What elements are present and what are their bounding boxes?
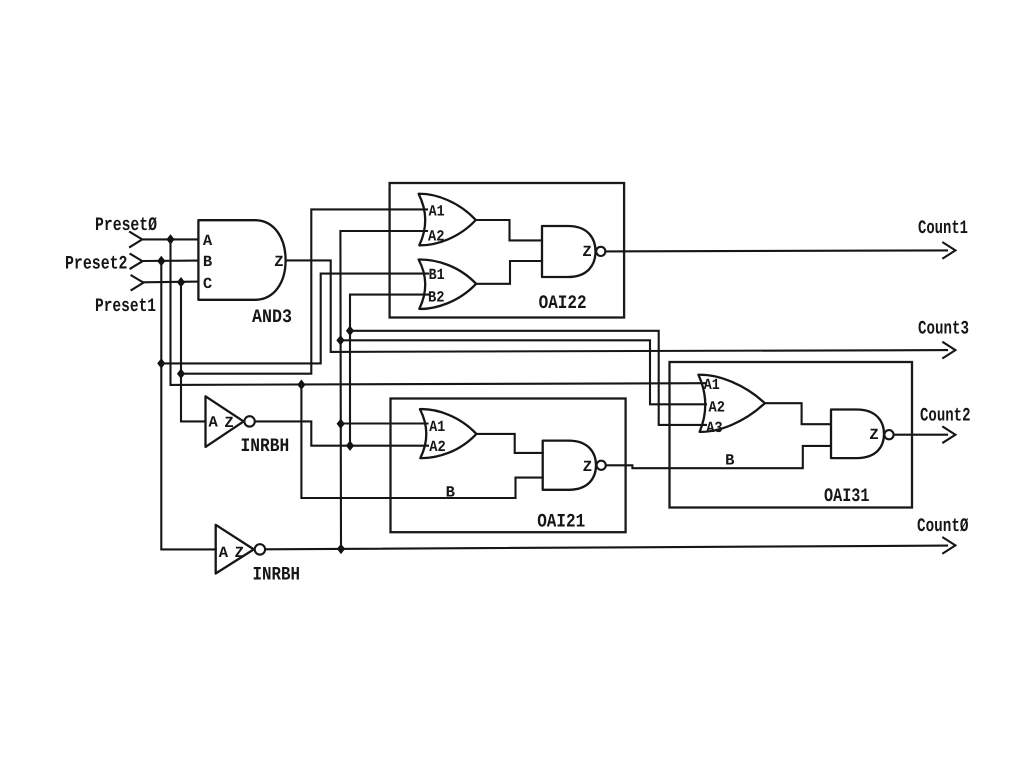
bubble OAI31.Z bbox=[884, 430, 893, 439]
label AND3 bbox=[252, 306, 292, 328]
wire Preset0 vertical bus bbox=[169, 239, 171, 385]
pin A of INRBH2 bbox=[219, 544, 229, 562]
label INRBH1 bbox=[241, 435, 290, 457]
nand-gate OAI22 bbox=[542, 226, 596, 277]
pin B of OAI21 bbox=[446, 483, 455, 501]
pin A2 of OAI31 bbox=[709, 398, 726, 416]
svg-text:Z: Z bbox=[869, 426, 878, 444]
pin Z of INRBH2 bbox=[235, 544, 244, 562]
pin Z of OAI22 bbox=[582, 243, 591, 261]
pin B of OAI31 bbox=[725, 451, 734, 469]
wire OAI22.Z to Count1 bbox=[605, 250, 947, 251]
label Preset2 bbox=[65, 252, 128, 274]
label Preset1 bbox=[95, 295, 156, 317]
wire OAI31.Z to Count2 bbox=[894, 434, 947, 436]
svg-text:CountØ: CountØ bbox=[917, 515, 969, 537]
junction Preset1 branch to OAI22.A1 bbox=[177, 369, 185, 379]
input pin Preset2 bbox=[131, 254, 143, 269]
wire Preset2 vertical bus to INRBH2 bbox=[161, 261, 215, 549]
junction Count0 net branch to OAI21.A1 bbox=[337, 419, 345, 429]
pin A1 of OAI21 bbox=[429, 418, 445, 436]
svg-text:A1: A1 bbox=[704, 376, 720, 394]
svg-text:A: A bbox=[209, 413, 219, 431]
pin A3 of OAI31 bbox=[706, 419, 723, 437]
label Count1 bbox=[918, 217, 968, 239]
svg-text:Z: Z bbox=[224, 414, 233, 432]
or-gate OAI22 B bbox=[419, 259, 477, 308]
label OAI22 bbox=[539, 292, 587, 314]
wire INRBH1 net branch to OAI31.A3 bbox=[350, 331, 706, 425]
junction INRBH1 net branch to OAI31.A3 bbox=[346, 326, 354, 336]
junction Preset1 at AND3.C bbox=[177, 277, 185, 287]
input pin Preset0 bbox=[130, 232, 142, 247]
svg-text:A2: A2 bbox=[709, 398, 726, 416]
junction Preset2 branch to OAI22.B1 bbox=[157, 358, 165, 368]
wire Preset1 vertical bus to INRBH1.A bbox=[181, 282, 206, 421]
svg-text:Count3: Count3 bbox=[918, 317, 969, 339]
svg-text:Count2: Count2 bbox=[920, 405, 971, 427]
wire OAI21 or output to nand bbox=[476, 434, 542, 453]
wire INRBH1 net riser to OAI22.B2 bbox=[350, 295, 428, 446]
junction Count0 net branch to OAI31.A2 bbox=[336, 335, 344, 345]
junction INRBH1 net to OAI22.B2 riser bbox=[346, 441, 354, 451]
svg-text:A: A bbox=[203, 232, 213, 250]
svg-text:B2: B2 bbox=[428, 288, 445, 306]
pin B2 of OAI22 bbox=[428, 288, 445, 306]
wire OAI31 or output to nand bbox=[765, 403, 831, 424]
bubble INRBH1.Z bbox=[244, 416, 254, 426]
svg-text:Preset2: Preset2 bbox=[65, 252, 128, 274]
svg-text:A1: A1 bbox=[429, 202, 445, 220]
wire Count0 net branch to OAI31.A2 bbox=[341, 340, 707, 404]
svg-text:OAI21: OAI21 bbox=[537, 510, 585, 532]
wire Preset1 to AND3.C bbox=[144, 281, 199, 284]
wire Preset0 branch down to OAI21.B bbox=[301, 385, 542, 498]
wire Count0 net branch to OAI21.A1 bbox=[341, 422, 428, 424]
or-gate OAI21 bbox=[420, 409, 477, 458]
pin A2 of OAI22 bbox=[428, 227, 445, 245]
wire INRBH2.Z to Count0 bbox=[265, 546, 947, 550]
svg-text:Preset1: Preset1 bbox=[95, 295, 156, 317]
junction Preset2 at AND3.B bbox=[157, 256, 165, 266]
label OAI31 bbox=[824, 485, 870, 507]
svg-text:Z: Z bbox=[235, 544, 244, 562]
svg-text:C: C bbox=[203, 275, 212, 293]
svg-text:OAI31: OAI31 bbox=[824, 485, 870, 507]
pin Z of INRBH1 bbox=[224, 414, 233, 432]
svg-text:Count1: Count1 bbox=[918, 217, 968, 239]
wire Preset0 to AND3.A bbox=[142, 238, 198, 240]
junction Count0 net riser bbox=[337, 544, 345, 554]
pin A of INRBH1 bbox=[209, 413, 219, 431]
box OAI21 bbox=[391, 399, 626, 533]
box OAI22 bbox=[390, 183, 624, 318]
svg-text:B: B bbox=[725, 451, 734, 469]
svg-text:INRBH: INRBH bbox=[241, 435, 290, 457]
svg-text:Z: Z bbox=[274, 253, 283, 271]
box OAI31 bbox=[670, 362, 913, 508]
pin C of AND3 bbox=[203, 275, 212, 293]
and-gate AND3 bbox=[198, 220, 285, 300]
label Count0 bbox=[917, 515, 969, 537]
wire Preset2 branch to OAI22.B1 riser bbox=[161, 274, 428, 364]
bubble OAI22.Z bbox=[596, 247, 605, 256]
output pin Count1 bbox=[943, 243, 955, 259]
inverter INRBH1 bbox=[206, 396, 244, 447]
wire OAI22 B-or output to nand bbox=[476, 261, 542, 284]
bubble INRBH2.Z bbox=[255, 544, 265, 554]
bubble OAI21.Z bbox=[597, 461, 606, 470]
label Count2 bbox=[920, 405, 971, 427]
svg-text:INRBH: INRBH bbox=[253, 564, 301, 586]
wire AND3.Z to Count3 bbox=[286, 260, 947, 352]
svg-text:A2: A2 bbox=[429, 438, 446, 456]
svg-text:OAI22: OAI22 bbox=[539, 292, 587, 314]
pin Z of OAI21 bbox=[583, 458, 592, 476]
nand-gate OAI31 bbox=[831, 410, 884, 459]
svg-text:Z: Z bbox=[583, 458, 592, 476]
nand-gate OAI21 bbox=[543, 441, 596, 490]
pin B1 of OAI22 bbox=[429, 266, 445, 284]
or-gate OAI31 bbox=[698, 375, 764, 432]
label Preset0 bbox=[95, 214, 157, 236]
wire OAI22 A-or output to nand bbox=[476, 220, 542, 240]
pin B of AND3 bbox=[203, 253, 212, 271]
svg-text:Z: Z bbox=[582, 243, 591, 261]
wire Preset0 horizontal to OAI31.A1 bbox=[171, 383, 707, 385]
pin Z of AND3 bbox=[274, 253, 283, 271]
label INRBH2 bbox=[253, 564, 301, 586]
or-gate OAI22 A bbox=[419, 194, 476, 246]
svg-text:B: B bbox=[203, 253, 212, 271]
svg-text:PresetØ: PresetØ bbox=[95, 214, 157, 236]
junction Preset0 branch to OAI21.B bbox=[297, 380, 305, 390]
svg-text:A3: A3 bbox=[706, 419, 723, 437]
output pin Count0 bbox=[943, 538, 955, 554]
svg-text:B1: B1 bbox=[429, 266, 445, 284]
wire Count0 net riser to OAI22.A2 bbox=[340, 231, 427, 549]
input pin Preset1 bbox=[132, 276, 144, 291]
svg-text:A2: A2 bbox=[428, 227, 445, 245]
wire OAI21.Z to OAI31.B bbox=[606, 446, 831, 468]
svg-text:A: A bbox=[219, 544, 229, 562]
pin Z of OAI31 bbox=[869, 426, 878, 444]
svg-text:B: B bbox=[446, 483, 455, 501]
label Count3 bbox=[918, 317, 969, 339]
inverter INRBH2 bbox=[216, 525, 254, 574]
wire Preset2 to AND3.B bbox=[143, 260, 199, 262]
output pin Count2 bbox=[943, 427, 955, 443]
label OAI21 bbox=[537, 510, 585, 532]
svg-text:A1: A1 bbox=[429, 418, 445, 436]
pin A2 of OAI21 bbox=[429, 438, 446, 456]
wire INRBH1.Z to OAI21.A2 bbox=[255, 421, 428, 445]
svg-text:AND3: AND3 bbox=[252, 306, 292, 328]
output pin Count3 bbox=[943, 342, 955, 358]
pin A1 of OAI22 bbox=[429, 202, 445, 220]
pin A1 of OAI31 bbox=[704, 376, 720, 394]
wire Preset1 branch to OAI22.A1 riser bbox=[181, 209, 427, 373]
junction Preset0 at AND3.A bbox=[166, 234, 174, 244]
pin A of AND3 bbox=[203, 232, 213, 250]
